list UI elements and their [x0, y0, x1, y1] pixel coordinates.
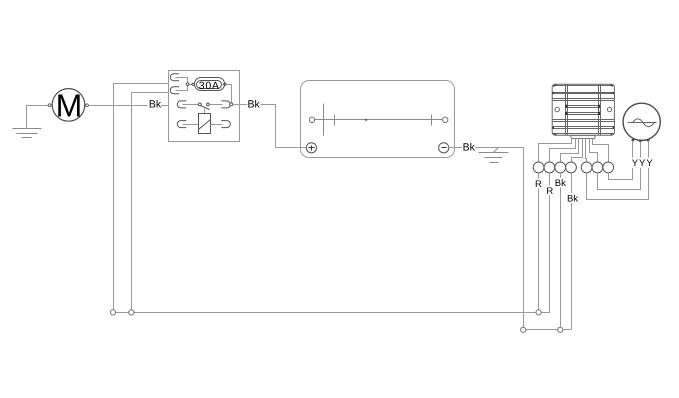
battery BT1 [301, 81, 455, 158]
connector terminal (contact left) [177, 101, 186, 108]
svg-text:Bk: Bk [149, 98, 162, 110]
label Bk (wire 4) [566, 193, 578, 204]
relay contact switch [183, 103, 223, 114]
junction bullet (bus A left 2) [129, 310, 134, 315]
wire R (bullet 1 to bus A) [538, 173, 540, 313]
wire Bk (bullet 4 to bus B corner) [571, 173, 573, 330]
label R (wire 1) [534, 179, 543, 190]
regulator pin 5 wire [586, 139, 587, 163]
label Bk (relay to battery) [247, 99, 260, 111]
connector bullets row [533, 162, 613, 173]
svg-text:Bk: Bk [463, 141, 476, 153]
regulator pin 7 wire [593, 139, 609, 163]
wire relay to battery plus [233, 105, 307, 148]
battery minus terminal [439, 143, 449, 153]
motor M1 [48, 88, 88, 124]
junction bullet (bus B middle) [558, 327, 563, 332]
label Bk (battery minus) [462, 141, 476, 153]
junction bullet (bus A left 1) [110, 310, 115, 315]
ground (motor frame) [13, 129, 42, 138]
svg-text:Bk: Bk [567, 193, 578, 204]
wire R (bullet 2 to bus A corner) [549, 173, 551, 313]
fuse F1 30A [192, 78, 227, 92]
labels Y Y Y [630, 158, 655, 170]
connector terminal (fuse input 2) [170, 87, 179, 94]
svg-text:R: R [535, 179, 542, 190]
label Bk (wire 3) [554, 178, 566, 189]
connector terminal (contact right) [221, 101, 230, 108]
wire battery minus to ground bus [449, 148, 524, 328]
wire relay box to bus A (branch 2) [132, 93, 169, 311]
wire motor to relay box [89, 105, 169, 107]
connector terminal (fuse input 1) [170, 74, 179, 81]
junction node (fuse input) [186, 83, 189, 86]
svg-text:R: R [546, 186, 553, 197]
svg-text:Y: Y [639, 158, 646, 169]
regulator corner marks [552, 85, 614, 135]
battery plus terminal [306, 143, 316, 153]
wire alternator phase 2 (to bullet 6) [598, 142, 641, 190]
svg-text:Y: Y [646, 158, 653, 169]
regulator pin 6 wire [590, 139, 598, 163]
svg-text:Y: Y [632, 158, 639, 169]
relay coil K1 [183, 114, 223, 134]
svg-text:Bk: Bk [555, 178, 566, 189]
bus B (ground bus) [524, 329, 572, 331]
wire fuse to relay contact [227, 85, 232, 103]
bus A (starter positive return) [113, 312, 550, 313]
connector terminal (coil right) [221, 121, 230, 128]
junction bullet (bus A right) [536, 310, 541, 315]
relay/fuse box [169, 71, 240, 142]
label Bk (motor wire) [148, 98, 162, 110]
wire motor to ground [27, 106, 49, 129]
wire Bk (bullet 3 to bus B) [560, 173, 562, 328]
wire relay box to bus A (branch 1) [114, 84, 169, 311]
wire alternator phase 1 (to bullet 7) [609, 141, 633, 180]
ground (battery minus) [479, 148, 509, 163]
regulator rectifier U1 [552, 84, 614, 135]
svg-text:Bk: Bk [247, 99, 260, 111]
regulator pin 3 wire [561, 139, 579, 163]
connector terminal (coil left) [177, 121, 186, 128]
wire hooks to fuse junction [176, 78, 192, 91]
alternator G1 [623, 103, 660, 142]
regulator pin 4 wire [572, 139, 583, 163]
wire alternator phase 3 (to bullet 5) [587, 141, 649, 200]
regulator pin 2 wire [550, 139, 576, 163]
svg-text:30A: 30A [199, 80, 220, 92]
svg-text:M: M [56, 88, 83, 124]
regulator pin 1 wire [539, 139, 572, 163]
terminal node (relay output) [230, 103, 233, 106]
junction bullet (bus B left) [521, 327, 526, 332]
label R (wire 2) [545, 186, 554, 197]
regulator connector shell [571, 136, 596, 139]
